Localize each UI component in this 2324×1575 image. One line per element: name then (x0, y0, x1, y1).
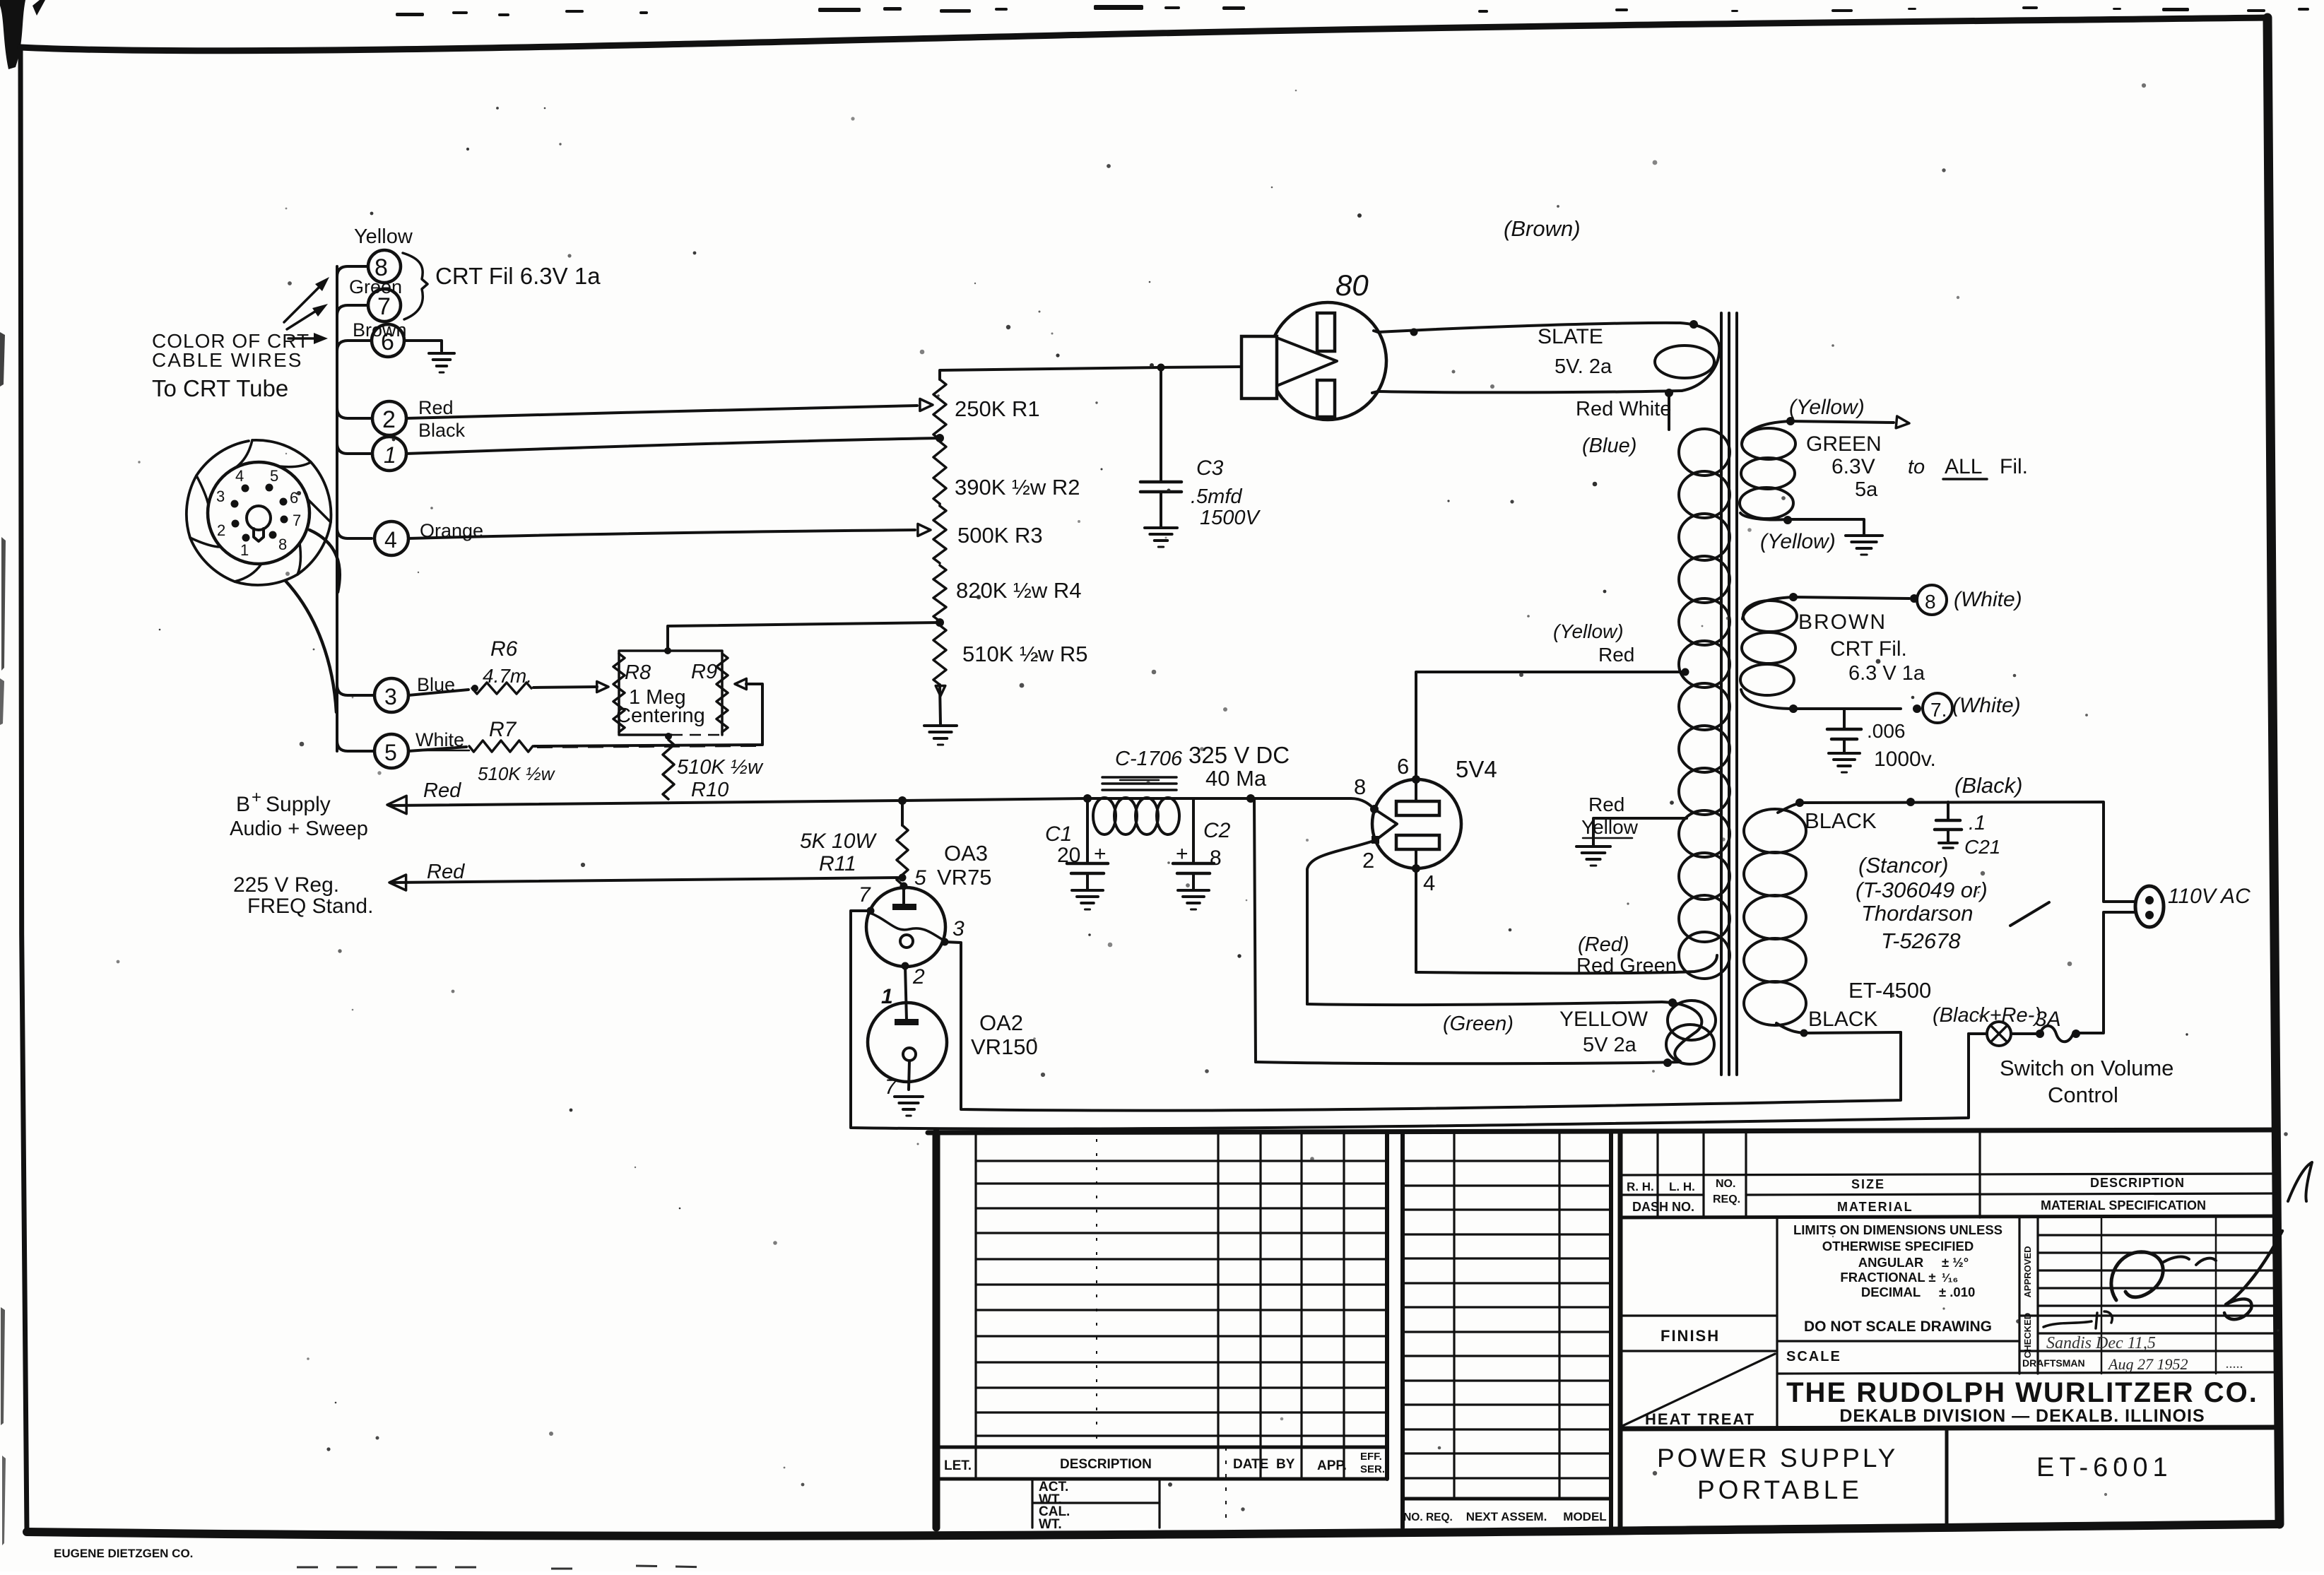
svg-text:MATERIAL SPECIFICATION: MATERIAL SPECIFICATION (2041, 1198, 2206, 1213)
svg-text:6.3V: 6.3V (1832, 455, 1875, 478)
svg-text:EUGENE DIETZGEN CO.: EUGENE DIETZGEN CO. (54, 1547, 193, 1560)
svg-text:7: 7 (859, 883, 871, 907)
svg-text:NO. REQ.: NO. REQ. (1403, 1511, 1453, 1523)
svg-text:BLACK: BLACK (1805, 808, 1877, 833)
resistor R3 500K (933, 506, 946, 563)
svg-text:BY: BY (1276, 1457, 1295, 1472)
wire pin3 blue to R6 (408, 690, 468, 695)
svg-text:FINISH: FINISH (1661, 1327, 1720, 1345)
wire R6 to R8 arrow (533, 687, 597, 688)
tube 80 filament (1277, 338, 1337, 386)
svg-text:FRACTIONAL ±: FRACTIONAL ± (1840, 1270, 1935, 1285)
svg-text:R6: R6 (490, 637, 518, 661)
pin 2 (Red) (372, 401, 406, 435)
svg-text:DECIMAL: DECIMAL (1861, 1285, 1921, 1299)
svg-text:(Green): (Green) (1443, 1013, 1514, 1035)
svg-text:Switch on Volume: Switch on Volume (2000, 1056, 2173, 1080)
svg-text:CHECKED: CHECKED (2022, 1313, 2033, 1358)
wire green bottom to ground (1788, 519, 1864, 534)
svg-text:5V. 2a: 5V. 2a (1555, 355, 1612, 378)
capacitor .006 1000v (1843, 709, 1846, 729)
wire 5V4 pin4 to red-green lead (1416, 868, 1419, 972)
wire B+ junction to 5V4 pin 8 (1251, 798, 1374, 809)
svg-text:8: 8 (278, 536, 287, 553)
company name (1620, 1427, 2277, 1429)
svg-text:FREQ Stand.: FREQ Stand. (247, 895, 373, 918)
pin 8 (Yellow) (368, 250, 401, 283)
VR tube OA3 (866, 887, 945, 967)
svg-text:500K R3: 500K R3 (957, 523, 1043, 548)
svg-text:VR150: VR150 (971, 1034, 1038, 1059)
OA3 pin 2 to OA2 pin 1 (902, 962, 909, 970)
socket outer shell (187, 440, 331, 585)
resistor R4 820K half-W (933, 565, 946, 621)
svg-text:ANGULAR: ANGULAR (1858, 1255, 1924, 1270)
svg-text:2: 2 (217, 521, 225, 539)
wire chain tap to centering top (668, 623, 940, 651)
svg-text:8: 8 (1210, 847, 1222, 870)
parts list grid (1400, 1133, 1405, 1528)
svg-text:ALL: ALL (1945, 455, 1982, 478)
node OA3 pin5 junction (902, 877, 903, 878)
wire pin6 to ground (404, 341, 442, 351)
svg-text:Control: Control (2048, 1083, 2118, 1107)
svg-text:OTHERWISE SPECIFIED: OTHERWISE SPECIFIED (1822, 1239, 1974, 1253)
ground at pin 6 (429, 352, 454, 355)
weight table (1031, 1479, 1033, 1528)
resistor R5 510K half-W (933, 625, 946, 685)
svg-text:4: 4 (384, 527, 397, 553)
svg-text:Red: Red (423, 779, 461, 802)
svg-text:+: + (252, 788, 261, 807)
wire 5V4 pin2 to yellow winding (1307, 840, 1376, 1004)
svg-text:.5mfd: .5mfd (1191, 485, 1242, 508)
svg-text:WT.: WT. (1039, 1517, 1062, 1532)
svg-text:390K ½w R2: 390K ½w R2 (955, 475, 1080, 500)
svg-text:3: 3 (384, 684, 397, 709)
node centering bottom tap (665, 733, 672, 740)
svg-text:R8: R8 (625, 661, 651, 684)
socket keyway (247, 506, 271, 530)
wire primary black bottom lead (1804, 1032, 1901, 1033)
svg-text:Black: Black (418, 420, 466, 441)
wire pin5 white to R7 (408, 747, 466, 751)
fuse 3A (2040, 1026, 2073, 1042)
svg-text:PORTABLE: PORTABLE (1697, 1475, 1863, 1504)
svg-text:R9: R9 (691, 661, 717, 683)
switch on volume control (1987, 1022, 2011, 1046)
svg-text:C3: C3 (1196, 456, 1224, 480)
svg-text:DASH NO.: DASH NO. (1632, 1200, 1694, 1214)
svg-text:to: to (1908, 456, 1925, 478)
titleblock right section (1618, 1131, 1623, 1528)
svg-text:225 V Reg.: 225 V Reg. (233, 873, 339, 897)
svg-text:(Yellow): (Yellow) (1553, 620, 1624, 642)
svg-text:.1: .1 (1969, 812, 1986, 834)
OA2 pin 7 to ground (909, 1061, 909, 1090)
svg-text:Centering: Centering (616, 704, 705, 727)
VR tube OA2 (868, 1003, 947, 1082)
wire plug lower to switch (2077, 912, 2135, 1033)
resistor R10 510K half-W (663, 740, 674, 799)
svg-text:110V AC: 110V AC (2168, 885, 2251, 908)
resistor R1 250K (933, 379, 946, 440)
pin 4 (Orange) (374, 521, 408, 555)
wire 5V4 pin6 to transformer red lead (1416, 672, 1685, 779)
socket cable tail (309, 530, 340, 592)
approved signature scrawl (2111, 1252, 2163, 1300)
capacitor C1 20mfd (1086, 798, 1089, 861)
centering box (619, 651, 722, 735)
potentiometer R8 (613, 654, 625, 732)
svg-text:3A: 3A (2035, 1008, 2061, 1031)
svg-text:B: B (236, 793, 250, 816)
svg-text:6: 6 (1397, 754, 1409, 779)
capacitor C3 .5mfd 1500V (1140, 480, 1181, 484)
svg-text:.....: ..... (2226, 1356, 2243, 1372)
wire R2-R3 segment (938, 504, 941, 506)
wire tube 80 plate leads (1372, 331, 1378, 393)
svg-text:SIZE: SIZE (1851, 1177, 1885, 1191)
wire R5 to ground (940, 685, 940, 724)
wire C3 stub (1160, 367, 1162, 482)
wire green to yellow arrow (1791, 421, 1894, 423)
potentiometer R9 (716, 654, 728, 732)
node CRT cable bus (336, 266, 338, 751)
svg-text:(Blue): (Blue) (1582, 435, 1636, 457)
svg-text:820K ½w R4: 820K ½w R4 (956, 578, 1082, 603)
pin 1 (Black) (372, 437, 406, 471)
svg-text:C2: C2 (1203, 819, 1231, 842)
svg-text:250K R1: 250K R1 (955, 396, 1040, 421)
svg-text:510K ½w: 510K ½w (677, 756, 764, 779)
svg-text:Thordarson: Thordarson (1861, 901, 1974, 926)
svg-text:HEAT TREAT: HEAT TREAT (1645, 1410, 1755, 1428)
svg-text:C21: C21 (1964, 836, 2000, 858)
svg-text:APPROVED: APPROVED (2022, 1246, 2033, 1298)
svg-text:(Red): (Red) (1578, 933, 1629, 956)
socket body (208, 462, 309, 564)
wire pin7 stub (337, 305, 368, 316)
svg-text:DO NOT SCALE DRAWING: DO NOT SCALE DRAWING (1804, 1319, 1992, 1335)
wire pin4 stub (337, 528, 372, 538)
svg-text:Yellow: Yellow (1581, 816, 1639, 838)
checked signature scrawl (2043, 1311, 2112, 1328)
svg-text:3: 3 (216, 488, 225, 505)
pin 5 (White) (374, 734, 408, 768)
wire brown bottom to pin 7 white (1793, 707, 1901, 710)
svg-text:¹⁄₁₆: ¹⁄₁₆ (1942, 1271, 1958, 1285)
svg-text:VR75: VR75 (937, 865, 992, 890)
wire pin2 stub (337, 408, 370, 418)
node red-yellow center tap to ground (1593, 818, 1687, 845)
svg-text:NO.: NO. (1716, 1178, 1735, 1190)
svg-text:L. H.: L. H. (1669, 1180, 1695, 1193)
drawing title POWER SUPPLY PORTABLE (1945, 1429, 1949, 1528)
wire primary black to 110VAC (1803, 802, 2135, 902)
svg-text:325 V DC: 325 V DC (1188, 742, 1290, 768)
scale box (1777, 1372, 2277, 1374)
svg-text:DRAFTSMAN: DRAFTSMAN (2022, 1357, 2085, 1369)
svg-text:4: 4 (1423, 871, 1435, 895)
svg-text:3: 3 (952, 917, 965, 940)
svg-text:.006: .006 (1867, 720, 1906, 742)
svg-text:NEXT ASSEM.: NEXT ASSEM. (1466, 1510, 1547, 1523)
svg-text:2: 2 (912, 965, 925, 989)
svg-text:REQ.: REQ. (1713, 1193, 1740, 1205)
svg-text:BLACK: BLACK (1808, 1008, 1877, 1031)
svg-text:DATE: DATE (1233, 1457, 1268, 1472)
svg-text:(Black): (Black) (1954, 773, 2022, 798)
svg-text:510K ½w R5: 510K ½w R5 (962, 642, 1088, 666)
revision table (974, 1135, 977, 1479)
svg-text:5a: 5a (1855, 478, 1878, 501)
rectifier tube 80 (1269, 302, 1386, 420)
svg-text:5K 10W: 5K 10W (800, 830, 877, 853)
svg-text:ET-4500: ET-4500 (1848, 978, 1931, 1003)
svg-text:SLATE: SLATE (1538, 325, 1603, 348)
secondary BROWN CRT Fil winding (1742, 597, 1793, 619)
wire chain top to C3 and tube 80 (940, 367, 1241, 379)
titleblock frame (928, 1130, 2277, 1133)
wire pin6 stub (337, 341, 372, 351)
svg-text:DEKALB DIVISION — DEKALB. ILLI: DEKALB DIVISION — DEKALB. ILLINOIS (1839, 1406, 2205, 1426)
wire pin1 black to R1/R2 junction (406, 438, 940, 454)
svg-text:Aug 27 1952: Aug 27 1952 (2107, 1355, 2188, 1373)
svg-text:40 Ma: 40 Ma (1205, 766, 1267, 791)
svg-text:POWER SUPPLY: POWER SUPPLY (1657, 1444, 1898, 1473)
svg-text:GREEN: GREEN (1806, 432, 1882, 456)
capacitor C21 .1 (1947, 802, 1950, 819)
svg-text:Yellow: Yellow (354, 225, 413, 248)
svg-text:1: 1 (240, 541, 249, 559)
svg-text:8: 8 (1354, 774, 1366, 799)
svg-text:Brown: Brown (353, 319, 407, 341)
5V4 pin 4 (1412, 864, 1420, 873)
wire OA3 pin3 loop (945, 942, 1901, 1111)
wire OA3 pin7 loop (851, 911, 1969, 1129)
secondary HV winding (1679, 429, 1730, 476)
capacitor C2 8mfd (1192, 798, 1195, 861)
svg-text:5: 5 (384, 740, 397, 765)
socket pin dots and numbers (242, 485, 249, 492)
svg-text:SCALE: SCALE (1786, 1349, 1841, 1364)
node R4/R5 junction (936, 618, 944, 627)
svg-text:6: 6 (290, 489, 298, 507)
svg-text:2: 2 (1362, 848, 1374, 873)
svg-text:BROWN: BROWN (1798, 610, 1887, 634)
svg-text:(Black+Re-): (Black+Re-) (1933, 1004, 2041, 1027)
svg-text:8: 8 (1925, 591, 1936, 613)
svg-text:R10: R10 (691, 779, 729, 801)
svg-text:Red: Red (427, 861, 465, 883)
svg-text:510K ½w: 510K ½w (478, 763, 556, 784)
svg-text:MATERIAL: MATERIAL (1837, 1200, 1913, 1214)
svg-text:2: 2 (382, 406, 396, 433)
svg-text:Fil.: Fil. (2000, 455, 2028, 478)
svg-text:6.3 V 1a: 6.3 V 1a (1848, 662, 1925, 685)
svg-text:OA2: OA2 (979, 1010, 1023, 1035)
wire pin1 stub (337, 443, 370, 454)
svg-text:LET.: LET. (944, 1458, 972, 1473)
svg-text:1000v.: 1000v. (1874, 748, 1936, 771)
svg-text:YELLOW: YELLOW (1559, 1008, 1648, 1031)
pin 6 (Brown) (372, 324, 404, 357)
resistor R11 5K 10W (901, 801, 904, 825)
secondary SLATE 5V 2a winding (1378, 323, 1680, 332)
svg-text:DESCRIPTION: DESCRIPTION (2090, 1176, 2185, 1190)
signature grid (2036, 1217, 2039, 1374)
resistor R6 4.7m (472, 683, 531, 694)
svg-text:(Stancor): (Stancor) (1858, 853, 1948, 878)
svg-text:7.: 7. (1930, 699, 1947, 721)
plug 110VAC (2135, 886, 2164, 927)
svg-text:Red: Red (1598, 644, 1634, 666)
5V4 filament (1374, 809, 1397, 840)
secondary GREEN 6.3V winding (1742, 421, 1791, 444)
finish heat treat cells (1776, 1217, 1778, 1429)
svg-text:5V 2a: 5V 2a (1583, 1034, 1637, 1056)
svg-text:5V4: 5V4 (1456, 756, 1497, 782)
svg-text:CABLE WIRES: CABLE WIRES (152, 349, 302, 371)
svg-text:80: 80 (1335, 269, 1369, 302)
svg-text:(Yellow): (Yellow) (1760, 530, 1836, 553)
limits box (2018, 1217, 2020, 1374)
svg-text:(Brown): (Brown) (1504, 216, 1581, 241)
svg-text:4.7m.: 4.7m. (483, 665, 532, 687)
svg-text:DESCRIPTION: DESCRIPTION (1060, 1457, 1152, 1472)
svg-text:R7: R7 (489, 718, 517, 741)
svg-text:OA3: OA3 (944, 841, 988, 866)
svg-text:(T-306049 or): (T-306049 or) (1856, 878, 1988, 902)
svg-text:Green: Green (349, 276, 402, 297)
svg-text:1500V: 1500V (1200, 507, 1261, 529)
svg-text:ET-6001: ET-6001 (2036, 1453, 2173, 1482)
svg-text:C-1706: C-1706 (1115, 748, 1183, 770)
wire 225V reg red (389, 875, 406, 890)
secondary YELLOW 5V 2a winding (1307, 1002, 1662, 1005)
svg-text:CRT Fil 6.3V 1a: CRT Fil 6.3V 1a (435, 263, 601, 289)
wire R7 to R9 wiper (534, 684, 762, 746)
ground green winding (1846, 534, 1882, 537)
svg-text:5: 5 (270, 467, 278, 485)
primary winding ET-4500 (1744, 809, 1806, 853)
svg-text:EFF.: EFF. (1360, 1451, 1382, 1463)
ground below R5 (924, 724, 957, 727)
wire brown top to pin 8 white (1793, 597, 1909, 598)
svg-text:SER.: SER. (1360, 1463, 1385, 1475)
wire yellow winding to B+ junction (1254, 798, 1256, 1062)
wire pin2 red to R1 tap (406, 406, 917, 418)
svg-text:T-52678: T-52678 (1881, 928, 1961, 953)
resistor R7 510K half-W (469, 741, 533, 752)
wire B+ supply red (387, 796, 406, 813)
svg-text:± ½°: ± ½° (1942, 1255, 1969, 1270)
svg-text:Red: Red (418, 397, 454, 418)
svg-text:Red White: Red White (1576, 398, 1671, 420)
resistor R2 390K half-W (933, 442, 946, 504)
transformer core (1720, 313, 1723, 1075)
pin 7 (Green) (368, 289, 401, 322)
svg-text:Audio + Sweep: Audio + Sweep (230, 818, 368, 840)
svg-text:C1: C1 (1045, 822, 1072, 846)
svg-text:Sandis Dec 11,5: Sandis Dec 11,5 (2046, 1334, 2156, 1352)
svg-text:5: 5 (914, 866, 926, 890)
svg-text:R11: R11 (819, 852, 856, 875)
svg-text:(White): (White) (1952, 694, 2021, 717)
svg-text:R. H.: R. H. (1627, 1180, 1654, 1193)
svg-text:APP.: APP. (1317, 1458, 1347, 1473)
brace CRT Fil (403, 253, 427, 319)
wire pin8 stub (337, 266, 368, 277)
svg-text:Supply: Supply (266, 793, 331, 816)
svg-text:CRT Fil.: CRT Fil. (1830, 637, 1907, 661)
wire pin4 orange to R3 tap (408, 530, 915, 538)
svg-text:LIMITS ON DIMENSIONS UNLESS: LIMITS ON DIMENSIONS UNLESS (1793, 1222, 2002, 1237)
svg-text:7: 7 (293, 512, 301, 529)
wire pin5 stub (337, 741, 373, 751)
pin 3 (Blue) (374, 678, 408, 712)
svg-text:± .010: ± .010 (1939, 1285, 1975, 1299)
svg-text:MODEL: MODEL (1563, 1510, 1606, 1523)
svg-text:Red Green: Red Green (1576, 955, 1677, 977)
svg-text:THE RUDOLPH WURLITZER CO.: THE RUDOLPH WURLITZER CO. (1786, 1377, 2258, 1408)
rectifier tube 5V4 (1372, 779, 1461, 868)
wire pin3 stub (337, 685, 373, 695)
node red-white blue tap (1665, 389, 1673, 397)
wire red-green lead (1419, 955, 1717, 973)
svg-text:(Yellow): (Yellow) (1789, 396, 1865, 419)
leader arrows to bus (284, 285, 322, 322)
svg-text:1: 1 (384, 442, 396, 468)
svg-text:To CRT Tube: To CRT Tube (152, 375, 288, 401)
svg-text:4: 4 (235, 467, 244, 485)
svg-text:Red: Red (1588, 794, 1624, 815)
svg-text:(White): (White) (1954, 588, 2022, 611)
